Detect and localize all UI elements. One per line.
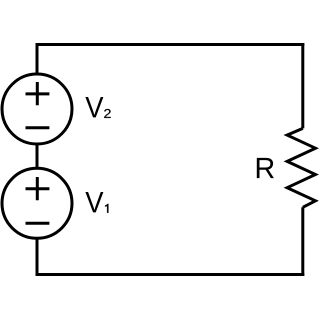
V2 minus sign <box>26 126 50 129</box>
wire: bottom horizontal <box>36 273 305 276</box>
wire: right vertical lower segment <box>301 207 304 276</box>
label V1: subscript 1 <box>105 204 108 213</box>
wire: top horizontal <box>36 43 305 46</box>
label V1: letter V <box>85 192 103 212</box>
voltage source V1 circle <box>2 168 72 238</box>
label V2: letter V <box>85 97 103 117</box>
wire: right vertical upper segment <box>301 43 304 128</box>
label V2: subscript 2 <box>104 109 111 118</box>
resistor R <box>287 128 315 207</box>
V2 plus sign <box>26 82 50 105</box>
label R <box>257 158 274 178</box>
voltage source V2 circle <box>2 74 72 144</box>
wire: left vertical branch <box>36 45 39 275</box>
V1 minus sign <box>26 222 50 225</box>
V1 plus sign <box>26 177 50 200</box>
